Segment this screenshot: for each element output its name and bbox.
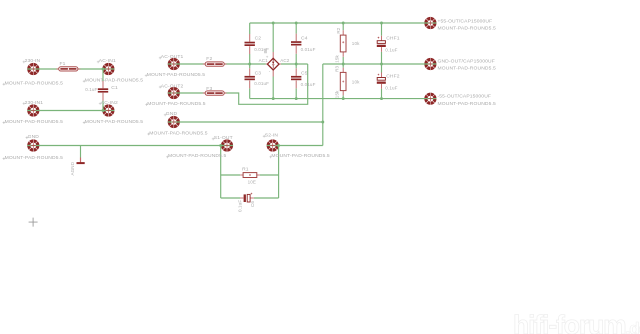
pad AC-OUT1 <box>168 58 180 70</box>
junction R2R3 gnd <box>342 63 345 66</box>
svg-text:MOUNT-PAD-ROUND5.5: MOUNT-PAD-ROUND5.5 <box>438 66 497 72</box>
label S2-IN <box>263 133 279 139</box>
svg-text:MOUNT-PAD-ROUND5.5: MOUNT-PAD-ROUND5.5 <box>147 72 206 78</box>
junction R3 bottom <box>342 97 345 100</box>
pad -55-OUT <box>424 93 436 105</box>
junction GND mid <box>321 121 324 124</box>
label mount AC-OUT2 <box>145 101 206 107</box>
wire C1 to AC-IN2 <box>102 101 104 111</box>
pad S2-IN <box>267 139 279 151</box>
svg-text:MOUNT-PAD-ROUND5.5: MOUNT-PAD-ROUND5.5 <box>271 153 330 159</box>
capacitor C3 <box>245 68 270 88</box>
svg-text:0.01uF: 0.01uF <box>301 47 316 52</box>
svg-text:AC-IN2: AC-IN2 <box>101 100 118 106</box>
svg-text:MOUNT-PAD-ROUND5.5: MOUNT-PAD-ROUND5.5 <box>438 26 497 32</box>
svg-text:AC-IN1: AC-IN1 <box>99 58 116 64</box>
wire F2 to bridge AC1 <box>224 63 266 65</box>
svg-text:MOUNT-PAD-ROUND5.5: MOUNT-PAD-ROUND5.5 <box>5 155 64 161</box>
label GND-OUT <box>438 58 497 71</box>
pad AC-OUT2 <box>168 87 180 99</box>
fuse F1 <box>56 61 80 71</box>
wire 230-IN to F1 <box>27 68 58 70</box>
label mount AC-IN1 <box>83 78 144 84</box>
junction loop right <box>277 144 280 147</box>
wire 230-IN1 to AC-IN2 <box>27 110 114 112</box>
label mount GND left <box>3 155 64 161</box>
svg-text:-55-OUT/CAP15000UF: -55-OUT/CAP15000UF <box>438 94 492 100</box>
resistor R1 <box>240 167 260 185</box>
wire GND rail <box>323 63 437 65</box>
svg-text:0.1uF: 0.1uF <box>238 200 243 212</box>
capacitor C1 <box>85 81 118 101</box>
svg-text:0.01uF: 0.01uF <box>254 81 269 86</box>
capacitor C6 <box>238 193 255 212</box>
svg-text:230-IN1: 230-IN1 <box>25 100 44 106</box>
ground AGND <box>70 158 85 176</box>
label mount AC-OUT1 <box>145 72 206 78</box>
wire R1 row <box>221 174 241 176</box>
pad AC-IN2 <box>102 104 114 116</box>
svg-text:MOUNT-PAD-ROUND5.5: MOUNT-PAD-ROUND5.5 <box>5 81 64 87</box>
junction bridge plus rail <box>272 22 275 25</box>
svg-text:10k: 10k <box>352 41 360 46</box>
svg-text:MOUNT-PAD-ROUND5.5: MOUNT-PAD-ROUND5.5 <box>85 119 144 125</box>
svg-text:CHF2: CHF2 <box>386 74 400 80</box>
pad GND-OUT <box>424 58 436 70</box>
svg-text:MOUNT-PAD-ROUND5.5: MOUNT-PAD-ROUND5.5 <box>168 153 227 159</box>
svg-text:0.1uF: 0.1uF <box>385 86 397 91</box>
capacitor C4 <box>291 34 316 54</box>
pad 230-IN <box>27 63 39 75</box>
wire F1 to AC-IN1 <box>78 68 115 70</box>
svg-text:MOUNT-PAD-ROUND5.5: MOUNT-PAD-ROUND5.5 <box>5 119 64 125</box>
svg-text:S1-OUT: S1-OUT <box>214 135 233 141</box>
svg-text:AC-OUT2: AC-OUT2 <box>161 83 184 89</box>
junction C5 bottom rail <box>295 97 298 100</box>
svg-text:230-IN: 230-IN <box>25 58 41 64</box>
junction AC2 x C4C5 <box>295 63 298 66</box>
svg-text:AGND: AGND <box>70 161 75 175</box>
svg-text:MOUNT-PAD-ROUND5.5: MOUNT-PAD-ROUND5.5 <box>85 78 144 84</box>
wire C6 row <box>221 197 240 199</box>
junction CHF2 bottom <box>380 97 383 100</box>
label AC-OUT2 <box>159 83 184 89</box>
pad AC-IN1 <box>102 63 114 75</box>
label mount S1-OUT <box>166 153 227 159</box>
junction loop left <box>219 144 222 147</box>
wire C3 chain <box>249 64 251 68</box>
svg-text:C5: C5 <box>301 71 308 77</box>
junction R2 top <box>342 22 345 25</box>
svg-text:F2: F2 <box>206 56 212 62</box>
label S1-OUT <box>212 135 233 141</box>
wire R2 chain <box>342 23 344 30</box>
wire C4 chain <box>295 23 297 34</box>
pad S1-OUT <box>221 139 233 151</box>
label mount GND mid <box>147 130 208 136</box>
wire F3 corner to AC2 return <box>224 64 308 104</box>
svg-text:MOUNT-PAD-ROUND5.5: MOUNT-PAD-ROUND5.5 <box>149 130 208 136</box>
junction CHF1 top <box>380 22 383 25</box>
label AC-OUT1 <box>159 54 184 60</box>
svg-text:+: + <box>266 54 269 59</box>
resistor R3 <box>334 65 360 98</box>
svg-text:R2: R2 <box>336 27 341 33</box>
junction C4 top rail <box>295 22 298 25</box>
svg-text:0.1uF: 0.1uF <box>385 48 397 53</box>
label GND left <box>26 134 40 140</box>
svg-text:MOUNT-PAD-ROUND5.5: MOUNT-PAD-ROUND5.5 <box>147 101 206 107</box>
svg-text:C3: C3 <box>255 71 262 77</box>
svg-text:R1: R1 <box>242 167 249 173</box>
svg-text:hifi-forum.de: hifi-forum.de <box>513 310 640 334</box>
svg-text:CHF1: CHF1 <box>386 35 400 41</box>
svg-text:S2-IN: S2-IN <box>265 133 279 139</box>
svg-text:AC2: AC2 <box>280 58 290 63</box>
junction CHF gnd <box>380 63 383 66</box>
svg-text:+55-OUT/CAP15000UF: +55-OUT/CAP15000UF <box>438 18 493 24</box>
svg-text:0.01uF: 0.01uF <box>301 82 316 87</box>
label GND mid <box>164 111 178 117</box>
wire AC-OUT1 to F2 <box>168 63 205 65</box>
label 230-IN1 <box>23 100 44 106</box>
svg-text:C1: C1 <box>111 85 118 91</box>
svg-text:AC-OUT1: AC-OUT1 <box>161 54 184 60</box>
svg-text:0.1uF: 0.1uF <box>85 87 97 92</box>
label -55-OUT <box>438 94 497 107</box>
wire AC-IN1 down to C1 <box>102 69 104 81</box>
label AC-IN1 <box>97 58 116 64</box>
label +55-OUT <box>438 18 497 31</box>
wire R3 chain <box>342 64 344 68</box>
wire -55 bottom rail <box>250 98 437 100</box>
capacitor C2 <box>245 34 270 54</box>
origin cross <box>29 218 38 227</box>
label mount 230-IN1 <box>3 119 64 125</box>
pad GND left <box>27 139 39 151</box>
svg-text:R3: R3 <box>334 65 339 71</box>
pad GND mid <box>168 116 180 128</box>
wire bridge plus to top rail <box>272 23 274 52</box>
svg-text:C6: C6 <box>250 201 255 207</box>
svg-text:10E: 10E <box>248 179 256 184</box>
wire top +55 rail <box>250 22 437 24</box>
wire loop right vertical <box>278 146 280 199</box>
wire AGND stub <box>80 146 82 158</box>
wire C5 chain <box>295 64 297 68</box>
wire GND mid pad <box>168 121 323 123</box>
svg-text:C4: C4 <box>301 36 308 42</box>
wire CHF2 chain <box>381 64 383 73</box>
capacitor C5 <box>291 68 316 88</box>
svg-text:MOUNT-PAD-ROUND5.5: MOUNT-PAD-ROUND5.5 <box>438 101 497 107</box>
svg-text:15k: 15k <box>334 90 339 98</box>
label AC-IN2 <box>99 100 118 106</box>
svg-text:GND: GND <box>28 134 40 140</box>
resistor R2 <box>334 27 360 63</box>
label mount 230-IN <box>3 81 64 87</box>
svg-text:10k: 10k <box>352 79 360 84</box>
wire bridge AC2 to vertical <box>281 63 308 65</box>
wire C2 chain <box>249 23 251 34</box>
svg-text:F3: F3 <box>206 86 212 92</box>
wire bridge minus to -55 rail <box>272 77 274 99</box>
label 230-IN <box>23 58 41 64</box>
junction C1 top <box>102 68 105 71</box>
pad 230-IN1 <box>27 104 39 116</box>
junction bridge minus rail <box>272 97 275 100</box>
capacitor CHF2 <box>377 73 400 91</box>
wire GND vertical <box>322 64 324 146</box>
svg-text:GND-OUT/CAP15000UF: GND-OUT/CAP15000UF <box>438 58 495 64</box>
fuse F3 <box>203 86 227 95</box>
junction AC1 x C2C3 <box>248 63 251 66</box>
wire S2-IN to GND vertical <box>267 145 323 147</box>
svg-text:C2: C2 <box>255 36 262 42</box>
wire GND left to S1-OUT <box>27 145 233 147</box>
wire AC-OUT2 to F3 <box>168 92 205 94</box>
pad +55-OUT <box>424 17 436 29</box>
bridge rectifier B1 <box>259 47 290 76</box>
label mount AC-IN2 <box>83 119 144 125</box>
label mount S2-IN <box>269 153 330 159</box>
svg-text:15k: 15k <box>334 55 339 63</box>
junction C1 bottom <box>102 109 105 112</box>
wire loop left vertical <box>220 146 222 199</box>
capacitor CHF1 <box>377 35 400 52</box>
svg-text:B1: B1 <box>263 47 268 53</box>
svg-text:F1: F1 <box>60 61 66 67</box>
fuse F2 <box>203 56 227 66</box>
wire CHF1 chain <box>381 23 383 36</box>
svg-text:GND: GND <box>166 111 178 117</box>
pad centre crosses <box>31 21 433 148</box>
